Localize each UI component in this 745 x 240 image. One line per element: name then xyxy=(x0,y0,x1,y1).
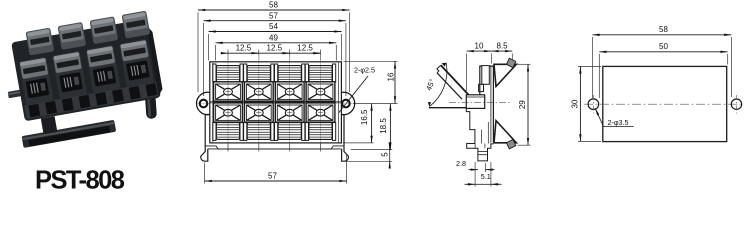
dimension 16 (right side) xyxy=(344,61,398,103)
cell column 1 xyxy=(213,64,243,152)
svg-text:2-φ3.5: 2-φ3.5 xyxy=(608,118,629,127)
dimension 49 xyxy=(216,33,337,60)
top right wing triangle xyxy=(494,58,516,86)
dimension 8.5 xyxy=(491,42,512,62)
svg-text:12.5: 12.5 xyxy=(267,44,283,53)
svg-text:45°: 45° xyxy=(424,78,437,92)
dimension 30 (left) xyxy=(571,66,601,141)
hole label 2-phi3.5 with leader xyxy=(595,108,633,127)
svg-text:8.5: 8.5 xyxy=(496,42,508,51)
front row caps with terminal windows xyxy=(19,39,155,105)
back row caps xyxy=(26,11,151,56)
left hole xyxy=(588,95,599,114)
left 45 wing xyxy=(437,65,469,99)
dimension 18.5 (right side) xyxy=(351,104,398,150)
dimension 16.5 (right side) xyxy=(343,104,373,143)
svg-text:57: 57 xyxy=(268,172,277,181)
back body rectangle xyxy=(603,66,727,141)
right mounting ear xyxy=(341,92,354,114)
DIN rail arm xyxy=(429,107,466,109)
horizontal centerline dash-dot xyxy=(584,103,742,105)
svg-text:49: 49 xyxy=(269,33,278,42)
dimension 12.5 x3 (pitch chain) xyxy=(221,44,321,61)
front view cells (4 columns x 2 rows + hatch strips) xyxy=(213,64,336,152)
svg-text:16: 16 xyxy=(387,72,396,81)
right peg xyxy=(144,84,157,119)
main column xyxy=(479,66,494,143)
dimension 57 (bottom) xyxy=(205,155,347,184)
cell column 4 xyxy=(305,64,335,152)
svg-text:57: 57 xyxy=(269,11,278,20)
cell column 3 xyxy=(275,64,305,152)
svg-text:54: 54 xyxy=(269,22,278,31)
horizontal centerline (dash-dot) xyxy=(449,101,510,103)
svg-text:12.5: 12.5 xyxy=(297,44,313,53)
mounting ear block (side) xyxy=(466,95,484,109)
svg-text:50: 50 xyxy=(659,42,668,51)
svg-text:2-φ2.5: 2-φ2.5 xyxy=(354,65,375,74)
dimension 54 xyxy=(209,22,342,60)
svg-text:16.5: 16.5 xyxy=(360,109,369,125)
svg-text:10: 10 xyxy=(475,42,484,51)
svg-text:2.8: 2.8 xyxy=(456,159,466,168)
45 degree dimension arc xyxy=(424,63,447,107)
svg-text:29: 29 xyxy=(518,100,527,109)
dimension 5 (right side) xyxy=(344,146,392,166)
dimension 29 (right) xyxy=(518,64,531,145)
dimension 2.8 xyxy=(456,159,495,172)
body outline xyxy=(205,62,344,152)
light centerlines through cells xyxy=(198,55,353,151)
svg-text:5: 5 xyxy=(381,152,390,157)
dimension 58 (top) xyxy=(198,1,350,92)
svg-text:58: 58 xyxy=(659,25,668,34)
dimension 5.1 xyxy=(465,162,502,187)
bottom rail foot xyxy=(22,120,117,148)
left mounting ear xyxy=(196,92,209,114)
right ear hole xyxy=(342,100,350,108)
svg-text:5.1: 5.1 xyxy=(481,172,491,181)
hole label 2-phi2.5 with leader xyxy=(339,65,376,113)
svg-text:PST-808: PST-808 xyxy=(35,167,125,195)
dimension 58 xyxy=(592,25,731,98)
lower front ribbed band xyxy=(24,82,158,119)
left ear hole xyxy=(200,100,208,108)
svg-text:30: 30 xyxy=(571,99,580,108)
dimension 50 xyxy=(599,42,727,98)
right hole xyxy=(731,95,741,114)
cell column 2 xyxy=(244,64,274,152)
lower-left stepped profile + stem with T-bar foot xyxy=(466,108,493,160)
dimension 10 xyxy=(467,42,492,91)
svg-text:12.5: 12.5 xyxy=(236,44,252,53)
dimension 57 (upper) xyxy=(204,11,346,96)
main body xyxy=(11,19,161,122)
svg-text:58: 58 xyxy=(269,1,278,10)
bottom right wing triangle xyxy=(494,121,516,149)
svg-text:18.5: 18.5 xyxy=(379,118,388,134)
body right side face xyxy=(146,24,163,96)
bottom skirt & feet xyxy=(201,146,349,161)
DIN arm (left) xyxy=(8,87,37,98)
row separator xyxy=(210,101,342,103)
